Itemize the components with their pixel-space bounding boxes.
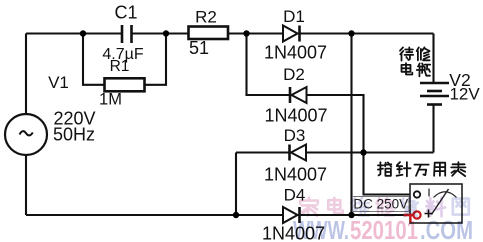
- diode D2 cathode bar: [289, 87, 292, 103]
- svg-text:R1: R1: [110, 58, 130, 75]
- diode D3 triangle: [291, 145, 306, 161]
- battery V2 plate 1 (long): [420, 82, 449, 85]
- multimeter body: [410, 184, 462, 223]
- label 指针万用表 (analog multimeter): [378, 162, 391, 176]
- svg-text:D1: D1: [283, 7, 305, 26]
- wire: R1 left branch: [83, 34, 105, 85]
- wire: D3 row (battery negative row): [236, 151, 434, 153]
- meter plus terminal mark: [425, 210, 433, 218]
- watermark WWW.520101.COM: [293, 215, 473, 242]
- wire: AC source top lead: [25, 34, 27, 116]
- junction node: bottom rail / D3 drop: [233, 212, 239, 218]
- svg-text:12V: 12V: [449, 85, 480, 104]
- svg-text:D3: D3: [284, 126, 306, 145]
- svg-text:51: 51: [189, 38, 209, 58]
- meter scale arc: [434, 192, 457, 198]
- svg-text:1N4007: 1N4007: [264, 106, 327, 126]
- junction node: D2/D3/battery- meter tap: [360, 149, 366, 155]
- svg-text:.COM: .COM: [420, 215, 473, 242]
- junction node: C1/R1 right: [163, 30, 169, 36]
- wire: D3 row left drop to bottom rail: [235, 153, 237, 216]
- svg-text:1N4007: 1N4007: [264, 43, 327, 63]
- svg-text:520101: 520101: [350, 215, 418, 242]
- label 电瓶 (battery under repair, line 2): [402, 63, 413, 74]
- meter top terminal: [414, 191, 420, 197]
- junction node: bottom rail / long vertical: [348, 212, 354, 218]
- diode D1 triangle: [283, 26, 298, 42]
- svg-text:1M: 1M: [99, 90, 122, 108]
- wire: battery top stem: [432, 34, 434, 84]
- diode D2 triangle: [292, 87, 307, 103]
- label 待修 (battery under repair, line 1): [400, 47, 413, 60]
- diode D3 cathode bar: [288, 145, 291, 161]
- wire: AC source bottom lead: [25, 154, 27, 215]
- resistor R2 body: [189, 27, 229, 40]
- wire: R1 right branch: [145, 34, 167, 85]
- battery V2 plate 2 (short): [427, 90, 442, 93]
- diode D4 triangle: [283, 207, 298, 223]
- meter needle: [432, 189, 449, 215]
- wire: top rail left (AC top to C1 left plate): [26, 32, 122, 34]
- diode D1 cathode bar: [298, 26, 301, 42]
- junction node: C1/R1 left: [80, 30, 86, 36]
- wire: bottom rail: [26, 214, 404, 216]
- meter needle tick: [428, 189, 430, 197]
- AC source V1 circle: [5, 114, 47, 155]
- AC source sine symbol: [20, 131, 33, 135]
- svg-text:1N4007: 1N4007: [264, 165, 327, 185]
- svg-text:C1: C1: [114, 3, 137, 23]
- svg-text:WWW.: WWW.: [293, 215, 349, 242]
- wire: D2 branch from R2/D1 node down and across, to meter top terminal: [247, 34, 414, 195]
- battery V2 plate 4 (short): [427, 103, 442, 106]
- resistor R1 body: [105, 78, 145, 91]
- svg-text:D2: D2: [283, 65, 305, 84]
- wire: battery bottom stem to D3 row: [432, 105, 434, 153]
- battery V2 plate 3 (long): [420, 95, 449, 98]
- DC 250V range label: [353, 197, 410, 212]
- junction node: D1 cathode / battery+ / long vertical: [348, 30, 354, 36]
- wire: long vertical from D1 cathode node down to bottom rail: [350, 34, 352, 216]
- diode D4 cathode bar: [298, 207, 301, 223]
- wire: top rail C1 right plate to battery corner: [132, 32, 434, 34]
- svg-text:R2: R2: [195, 7, 217, 26]
- svg-text:50Hz: 50Hz: [53, 125, 95, 145]
- wire: red lead to meter bottom terminal: [404, 214, 413, 217]
- svg-text:V1: V1: [48, 73, 69, 92]
- capacitor C1 plates: [122, 25, 132, 43]
- meter bottom terminal (red): [413, 211, 420, 218]
- junction node: R2 output / D1 anode / D2 branch: [243, 30, 249, 36]
- watermark 家电维修资料网: [300, 198, 318, 216]
